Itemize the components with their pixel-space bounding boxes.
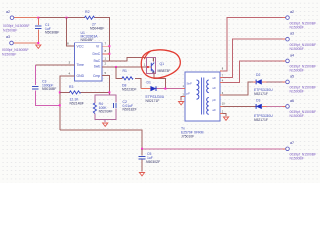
- svg-text:5: 5: [105, 71, 107, 75]
- svg-text:1: 1: [144, 63, 146, 67]
- wire: T1 pin4 to port B3: [220, 61, 285, 83]
- svg-text:N1500BF: N1500BF: [290, 157, 304, 161]
- wire: R1 branch down and right: [116, 67, 141, 89]
- port B1 (right out 1): [283, 17, 286, 19]
- svg-text:4: 4: [222, 79, 224, 83]
- node: junction base wire / R1: [115, 66, 117, 68]
- wire: D1 cathode to junction and transformer pin 1: [156, 88, 185, 90]
- svg-text:N1500BF: N1500BF: [3, 28, 17, 32]
- svg-text:R3: R3: [69, 85, 73, 89]
- svg-text:2: 2: [105, 62, 107, 66]
- capacitor C5: [139, 157, 146, 160]
- port B5 (right out 5): [286, 105, 290, 109]
- wire: transformer pin lead stubs (salmon): [183, 71, 223, 114]
- node: junction top rail at VCC branch: [66, 17, 68, 19]
- svg-text:Time: Time: [77, 63, 85, 67]
- svg-text:N52171F: N52171F: [254, 92, 268, 96]
- ground below C1 junction: [36, 45, 41, 48]
- wire: bottom ground rail: [60, 130, 142, 149]
- port A2 (left input): [10, 16, 14, 20]
- svg-text:10: 10: [222, 101, 225, 105]
- transformer secondary winding lower: [207, 98, 209, 115]
- svg-text:a3: a3: [6, 35, 10, 39]
- ground below RC box: [103, 123, 108, 126]
- node: base junction dot: [147, 66, 149, 68]
- svg-text:eF: eF: [213, 108, 217, 112]
- wire: Q1 emitter to D1 junction: [154, 72, 165, 89]
- resistor R1: [122, 77, 133, 80]
- node: junction IC pin7 on vertical: [108, 45, 110, 47]
- svg-text:7: 7: [105, 42, 107, 46]
- svg-text:N1500BF: N1500BF: [290, 69, 304, 73]
- svg-text:SwC: SwC: [94, 59, 101, 63]
- svg-text:a2: a2: [6, 10, 10, 14]
- svg-text:N52034F: N52034F: [99, 110, 113, 114]
- svg-text:VCC: VCC: [77, 45, 85, 49]
- wire: R3 leads: [60, 91, 110, 93]
- svg-text:pF: pF: [213, 98, 217, 102]
- port B6 (bottom right): [283, 148, 286, 150]
- node: junction top rail at C1 branch: [37, 17, 39, 19]
- wire: D2 leads: [253, 81, 267, 83]
- svg-text:N5D4BF: N5D4BF: [81, 38, 94, 42]
- svg-text:N5223DF: N5223DF: [122, 88, 137, 92]
- op IC U1 MC33363 box: [75, 43, 103, 81]
- svg-text:N5044BF: N5044BF: [90, 27, 104, 31]
- svg-text:GND: GND: [77, 74, 85, 78]
- red annotation pen tail: [144, 51, 151, 59]
- wire: C1 vertical branch: [37, 18, 39, 43]
- wire: C3 bottom to GND rail junction: [35, 91, 60, 106]
- svg-text:8: 8: [222, 67, 224, 71]
- wire: Time pin to C3 branch: [35, 64, 74, 66]
- svg-text:D2: D2: [256, 73, 260, 77]
- svg-text:uF: uF: [213, 76, 217, 80]
- svg-text:a6: a6: [290, 99, 294, 103]
- wire: top rail to R2 left lead: [67, 17, 86, 19]
- svg-text:N1500BF: N1500BF: [290, 25, 304, 29]
- node: junction emitter/D1: [164, 88, 166, 90]
- svg-text:N5214BF: N5214BF: [70, 101, 84, 105]
- svg-text:a2: a2: [290, 10, 294, 14]
- resistor R3: [70, 91, 81, 94]
- svg-text:Q1: Q1: [160, 62, 165, 66]
- wire: port A3 to ground junction: [14, 42, 39, 44]
- node: junction Cmp / R3: [108, 91, 110, 93]
- svg-text:MB873F: MB873F: [158, 69, 171, 73]
- port B4 (right out 4): [286, 80, 290, 84]
- ground at T1 primary pin2: [179, 102, 184, 105]
- svg-text:uF: uF: [213, 86, 217, 90]
- svg-text:R2: R2: [85, 10, 90, 14]
- svg-text:DrvC: DrvC: [93, 52, 101, 56]
- port B3 (right out 3): [283, 60, 286, 62]
- svg-text:a7: a7: [290, 141, 294, 145]
- wire: stub pin7: [102, 45, 109, 47]
- svg-text:8: 8: [67, 41, 69, 45]
- svg-text:N5018ZF: N5018ZF: [123, 108, 137, 112]
- svg-text:N1500BF: N1500BF: [290, 90, 304, 94]
- svg-text:a3: a3: [290, 32, 294, 36]
- wire: C5 branch: [141, 149, 143, 172]
- svg-text:4: 4: [69, 71, 71, 75]
- svg-text:D1: D1: [147, 81, 151, 85]
- transformer core lines: [202, 78, 204, 115]
- wire: D3 cathode to port B5: [262, 105, 266, 107]
- resistor R2: [85, 16, 95, 19]
- wire: stub pin8: [102, 53, 109, 55]
- wire: T1 pin6 up through D2 to port B4: [220, 82, 253, 95]
- ground below C5: [139, 173, 144, 176]
- transistor Q1 outline box: [147, 58, 156, 74]
- svg-text:D3: D3: [256, 99, 260, 103]
- wire: bottom rail to port B6: [142, 148, 286, 150]
- wire: T1 secondary pin2 to ground: [220, 114, 226, 117]
- red annotation ellipse around Q1: [141, 50, 180, 78]
- svg-text:N5030BF: N5030BF: [45, 31, 59, 35]
- svg-text:N5016BF: N5016BF: [42, 87, 56, 91]
- node: junction GND rail at R3: [59, 91, 61, 93]
- svg-text:0039pf_N1500BF: 0039pf_N1500BF: [2, 48, 29, 52]
- svg-text:Cmp: Cmp: [93, 74, 100, 78]
- svg-text:N1500BF: N1500BF: [290, 114, 304, 118]
- transformer primary winding: [197, 80, 199, 99]
- node: junction at C1 bottom / A3 wire: [37, 42, 39, 44]
- wire: D1 anode lead: [141, 88, 150, 90]
- wire: stub pin1 + SwC route to Q1 collector: [102, 58, 147, 62]
- wire: T1 pin10 through D3 to port B5: [220, 105, 256, 107]
- svg-text:R1: R1: [123, 69, 127, 73]
- capacitor C3: [32, 87, 39, 90]
- svg-text:a5: a5: [290, 74, 294, 78]
- wire: SwE pin 2 to Q1 base: [102, 66, 148, 68]
- wire: R2 right lead to corner, down to IC pins 7/8/1: [94, 18, 109, 61]
- resistor R4 (vertical): [93, 103, 96, 114]
- wire: Q1 collector stub: [153, 58, 155, 62]
- wire: Cmp pin 5 down to compensation node: [102, 76, 109, 95]
- svg-text:J75010F: J75010F: [181, 135, 194, 139]
- node: junction bottom rail at C5: [141, 148, 143, 150]
- svg-text:N52171F: N52171F: [146, 99, 160, 103]
- node: junction IC pin8 on vertical: [108, 53, 110, 55]
- wire: T1 pin8 to port B1: [220, 18, 285, 71]
- port A3 (left input 2): [10, 41, 14, 45]
- node: junction GND rail at C3 branch: [59, 104, 61, 106]
- svg-text:SnF: SnF: [187, 82, 193, 86]
- capacitor C2: [113, 103, 116, 108]
- svg-text:a4: a4: [290, 53, 294, 57]
- svg-text:1: 1: [183, 84, 185, 88]
- svg-text:6: 6: [222, 91, 224, 95]
- ground at T1 secondary: [223, 117, 228, 120]
- port B2 (right out 2): [283, 38, 286, 40]
- svg-text:2: 2: [183, 93, 185, 97]
- transformer T1 box: [185, 72, 220, 121]
- svg-text:N1500BF: N1500BF: [290, 47, 304, 51]
- svg-text:N1500BF: N1500BF: [2, 53, 16, 57]
- capacitor C1: [35, 26, 42, 29]
- svg-text:N52171F: N52171F: [254, 118, 268, 122]
- wire: RC compensation box loop: [95, 95, 116, 122]
- svg-text:3: 3: [69, 60, 71, 64]
- transistor Q1 symbol: [151, 63, 154, 72]
- transformer secondary winding upper: [207, 80, 209, 93]
- svg-text:7: 7: [222, 73, 224, 77]
- svg-text:SwE: SwE: [94, 65, 101, 69]
- diode D3: [256, 104, 261, 109]
- wire: GND pin to left rail and down: [60, 76, 75, 130]
- diode D1: [151, 86, 156, 91]
- diode D2: [256, 80, 261, 85]
- wire: T1 pin2 to ground: [181, 97, 185, 101]
- svg-text:1: 1: [105, 57, 107, 61]
- wire: T1 pin7 to port B2: [220, 39, 285, 77]
- svg-text:N5030ZF: N5030ZF: [146, 160, 160, 164]
- svg-text:2: 2: [222, 109, 224, 113]
- svg-text:8: 8: [105, 49, 107, 53]
- wire: top rail C1 junction to VCC rail junction: [38, 17, 66, 19]
- svg-text:pF: pF: [187, 91, 191, 95]
- wire: VCC rail down from top rail to IC VCC pin: [67, 18, 75, 47]
- wire: top rail from port A2 to C1 junction: [14, 17, 38, 19]
